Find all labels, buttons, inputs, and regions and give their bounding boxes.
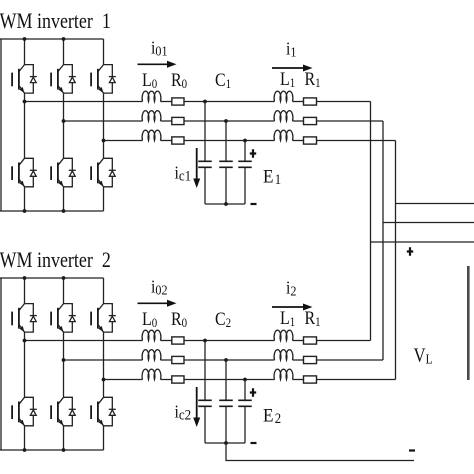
wire: inv2 phase c segment 1	[104, 379, 143, 381]
inductor L1 (inv2 phase a)	[274, 330, 293, 340]
transistor Q14 (inv1 leg b lower IGBT with anti-parallel diode)	[51, 158, 76, 187]
wire: inverter 2 top DC bus	[0, 277, 104, 279]
wire: C1 phase a drop	[204, 102, 206, 162]
inductor L1 (inv1 phase c)	[274, 130, 293, 140]
wire: inv1 phase c segment 2	[161, 140, 172, 142]
svg-text:i1: i1	[286, 39, 296, 60]
capacitor C2a	[198, 400, 212, 406]
wire: load feed phase c	[396, 203, 474, 205]
wire: inv2 phase b segment 1	[64, 359, 143, 361]
junction: inv2 phase b tap at leg	[62, 358, 66, 362]
wire: C2 phase a lower	[204, 406, 206, 443]
wire: inv1 phase b segment 4	[293, 120, 304, 122]
wire: inv2 phase b segment 5	[317, 359, 384, 361]
wire: inv1 leg b upper collector	[63, 39, 65, 65]
svg-text:L0: L0	[142, 69, 157, 92]
inductor L0 (inv1 phase a)	[142, 91, 161, 101]
polarity + of E2	[250, 388, 256, 397]
polarity - of load voltage VL	[409, 449, 415, 451]
inductor L0 (inv2 phase b)	[142, 350, 161, 360]
junction: inv1 phase a capacitor tap	[203, 100, 207, 104]
capacitor C2b	[219, 400, 233, 406]
junction: inv2 phase c capacitor tap	[243, 378, 247, 382]
junction: inv2 top bus leg a	[23, 276, 27, 280]
wire: C1 phase b lower	[225, 167, 227, 204]
wire: inv2 leg a lower emitter	[24, 426, 26, 450]
wire: inv2 phase b segment 4	[293, 359, 304, 361]
wire: inv1 leg b midpoint	[63, 93, 65, 158]
wire: inv1 leg c lower emitter	[103, 187, 105, 211]
polarity + of E1	[250, 149, 256, 158]
junction: inv1 top bus leg b	[62, 37, 66, 41]
arrow: current i1 direction	[272, 65, 313, 72]
wire: inverter 1 DC link left vertical	[0, 39, 2, 211]
wire: inv1 phase a segment 4	[293, 101, 304, 103]
resistor R1 (inv1 phase a)	[304, 98, 317, 105]
junction: inv2 phase c tap at leg	[102, 378, 106, 382]
wire: inv2 leg b midpoint	[63, 332, 65, 397]
polarity - of E1	[251, 203, 257, 205]
wire: inv1 phase b segment 5	[317, 120, 384, 122]
wire: inv2 leg b lower emitter	[63, 426, 65, 450]
junction: C1 neutral bus center	[224, 202, 228, 206]
wire: inv2 phase c segment 5	[317, 379, 396, 381]
wire: phase c interconnect vertical (inv1 to inv2)	[395, 141, 397, 380]
wire: inv1 phase c segment 5	[317, 140, 396, 142]
resistor R0 (inv2 phase c)	[172, 376, 184, 383]
svg-text:R1: R1	[305, 307, 321, 330]
wire: inv1 leg a lower emitter	[24, 187, 26, 211]
transistor Q12 (inv1 leg a lower IGBT with anti-parallel diode)	[12, 158, 37, 187]
wire: inverter 1 top DC bus	[0, 38, 104, 40]
transistor Q13 (inv1 leg b upper IGBT with anti-parallel diode)	[51, 65, 76, 94]
wire: inv2 phase a segment 2	[161, 340, 172, 342]
junction: inv1 phase c tap at leg	[102, 139, 106, 143]
svg-text:WM inverter 2: WM inverter 2	[0, 248, 111, 272]
junction: inv1 top bus leg a	[23, 37, 27, 41]
svg-text:L1: L1	[280, 307, 295, 330]
wire: inv2 leg c midpoint	[103, 332, 105, 397]
junction: inv1 bottom bus leg b	[62, 209, 66, 213]
svg-text:ic1: ic1	[175, 163, 192, 184]
wire: inv1 phase c segment 1	[104, 140, 143, 142]
arrow: capacitor current ic1	[193, 148, 200, 188]
svg-text:i02: i02	[151, 277, 168, 298]
inductor L1 (inv1 phase b)	[274, 111, 293, 121]
capacitor C2c	[238, 400, 252, 406]
transistor Q25 (inv2 leg c upper IGBT with anti-parallel diode)	[91, 304, 116, 333]
wire: inv2 leg a midpoint	[24, 332, 26, 397]
arrow: current i2 direction	[272, 304, 313, 311]
junction: inv2 top bus leg b	[62, 276, 66, 280]
wire: load feed phase a	[371, 241, 474, 243]
capacitor C1a	[198, 161, 212, 167]
wire: C1 phase a lower	[204, 167, 206, 204]
junction: inv1 bottom bus leg a	[23, 209, 27, 213]
junction: inv1 phase a tap at leg	[23, 100, 27, 104]
resistor R0 (inv1 phase b)	[172, 117, 184, 124]
wire: inv1 leg a upper collector	[24, 39, 26, 65]
svg-text:VL: VL	[414, 344, 433, 367]
wire: phase b interconnect vertical (inv1 to inv2)	[382, 121, 384, 360]
wire: inv1 phase a segment 5	[317, 101, 371, 103]
junction: inv2 phase a capacitor tap	[203, 339, 207, 343]
transistor Q15 (inv1 leg c upper IGBT with anti-parallel diode)	[91, 65, 116, 94]
wire: inv2 leg b upper collector	[63, 278, 65, 304]
wire: phase a interconnect vertical (inv1 to inv2)	[370, 102, 372, 341]
inductor L1 (inv2 phase c)	[274, 369, 293, 379]
wire: inv2 leg c lower emitter	[103, 426, 105, 450]
transistor Q24 (inv2 leg b lower IGBT with anti-parallel diode)	[51, 397, 76, 426]
wire: C2 phase b drop	[225, 360, 227, 400]
junction: inv2 phase b capacitor tap	[224, 358, 228, 362]
wire: C2 phase b lower	[225, 406, 227, 443]
svg-text:i2: i2	[286, 278, 296, 299]
wire: C2 neutral bus	[205, 442, 245, 444]
inductor L0 (inv2 phase c)	[142, 369, 161, 379]
svg-text:C2: C2	[215, 308, 231, 331]
wire: inverter 2 bottom DC bus	[0, 449, 104, 451]
load (clipped at right edge)	[467, 266, 470, 380]
svg-text:R0: R0	[171, 308, 187, 331]
svg-text:R1: R1	[305, 68, 321, 91]
wire: C2 phase c lower	[244, 406, 246, 443]
inductor L1 (inv2 phase b)	[274, 350, 293, 360]
wire: inv2 leg a upper collector	[24, 278, 26, 304]
wire: inv1 phase b segment 3	[184, 120, 275, 122]
wire: inv1 phase c segment 3	[184, 140, 275, 142]
arrow: current i01 direction	[138, 61, 177, 68]
wire: C1 phase c lower	[244, 167, 246, 204]
wire: inv1 phase c segment 4	[293, 140, 304, 142]
wire: C2 phase a drop	[204, 341, 206, 401]
wire: inverter 2 DC link left vertical	[0, 278, 2, 450]
wire: inv1 leg c upper collector	[103, 39, 105, 65]
transistor Q22 (inv2 leg a lower IGBT with anti-parallel diode)	[12, 397, 37, 426]
wire: inv1 phase b segment 1	[64, 120, 143, 122]
wire: inv1 phase a segment 3	[184, 101, 275, 103]
resistor R1 (inv2 phase c)	[304, 376, 317, 383]
svg-text:C1: C1	[215, 69, 231, 92]
arrow: capacitor current ic2	[193, 387, 200, 427]
wire: C1 phase b drop	[225, 121, 227, 161]
wire: C1 phase c drop	[244, 141, 246, 162]
wire: inverter 1 bottom DC bus	[0, 210, 104, 212]
wire: inv1 leg a midpoint	[24, 93, 26, 158]
wire: inv2 phase b segment 2	[161, 359, 172, 361]
svg-text:L1: L1	[280, 68, 295, 91]
svg-text:WM inverter 1: WM inverter 1	[0, 9, 111, 33]
junction: inv1 phase c capacitor tap	[243, 139, 247, 143]
wire: C2 neutral return to load	[226, 443, 414, 461]
junction: C2 neutral bus center	[224, 441, 228, 445]
wire: C2 phase c drop	[244, 380, 246, 401]
wire: inv2 phase c segment 2	[161, 379, 172, 381]
capacitor C1b	[219, 161, 233, 167]
wire: inv1 phase b segment 2	[161, 120, 172, 122]
resistor R1 (inv1 phase b)	[304, 117, 317, 124]
wire: load feed phase b	[383, 222, 474, 224]
resistor R0 (inv1 phase a)	[172, 98, 184, 105]
junction: inv1 phase b tap at leg	[62, 119, 66, 123]
wire: inv2 phase a segment 1	[25, 340, 143, 342]
wire: inv1 phase a segment 1	[25, 101, 143, 103]
svg-text:E2: E2	[263, 405, 281, 427]
resistor R1 (inv2 phase a)	[304, 337, 317, 344]
svg-text:E1: E1	[263, 166, 281, 188]
junction: inv2 bottom bus leg b	[62, 448, 66, 452]
capacitor C1c	[238, 161, 252, 167]
wire: inv2 phase a segment 4	[293, 340, 304, 342]
svg-text:i01: i01	[151, 38, 168, 59]
junction: inv2 phase a tap at leg	[23, 339, 27, 343]
resistor R0 (inv1 phase c)	[172, 137, 184, 144]
junction: inv2 bottom bus leg a	[23, 448, 27, 452]
wire: inv2 phase c segment 3	[184, 379, 275, 381]
transistor Q11 (inv1 leg a upper IGBT with anti-parallel diode)	[12, 65, 37, 94]
svg-text:L0: L0	[142, 308, 157, 331]
transistor Q26 (inv2 leg c lower IGBT with anti-parallel diode)	[91, 397, 116, 426]
svg-text:ic2: ic2	[175, 402, 192, 423]
resistor R1 (inv1 phase c)	[304, 137, 317, 144]
polarity + of load voltage VL	[407, 247, 413, 256]
inductor L0 (inv1 phase c)	[142, 130, 161, 140]
resistor R0 (inv2 phase a)	[172, 337, 184, 344]
wire: inv2 leg c upper collector	[103, 278, 105, 304]
wire: C1 neutral bus	[205, 203, 245, 205]
wire: inv2 phase b segment 3	[184, 359, 275, 361]
wire: inv2 phase a segment 5	[317, 340, 371, 342]
junction: inv1 phase b capacitor tap	[224, 119, 228, 123]
wire: inv2 phase c segment 4	[293, 379, 304, 381]
wire: inv1 phase a segment 2	[161, 101, 172, 103]
wire: inv1 leg c midpoint	[103, 93, 105, 158]
resistor R1 (inv2 phase b)	[304, 356, 317, 363]
wire: inv2 phase a segment 3	[184, 340, 275, 342]
transistor Q23 (inv2 leg b upper IGBT with anti-parallel diode)	[51, 304, 76, 333]
inductor L0 (inv2 phase a)	[142, 330, 161, 340]
transistor Q16 (inv1 leg c lower IGBT with anti-parallel diode)	[91, 158, 116, 187]
resistor R0 (inv2 phase b)	[172, 356, 184, 363]
polarity - of E2	[251, 442, 257, 444]
arrow: current i02 direction	[138, 300, 177, 307]
wire: inv1 leg b lower emitter	[63, 187, 65, 211]
transistor Q21 (inv2 leg a upper IGBT with anti-parallel diode)	[12, 304, 37, 333]
inductor L0 (inv1 phase b)	[142, 111, 161, 121]
svg-text:R0: R0	[171, 69, 187, 92]
inductor L1 (inv1 phase a)	[274, 91, 293, 101]
